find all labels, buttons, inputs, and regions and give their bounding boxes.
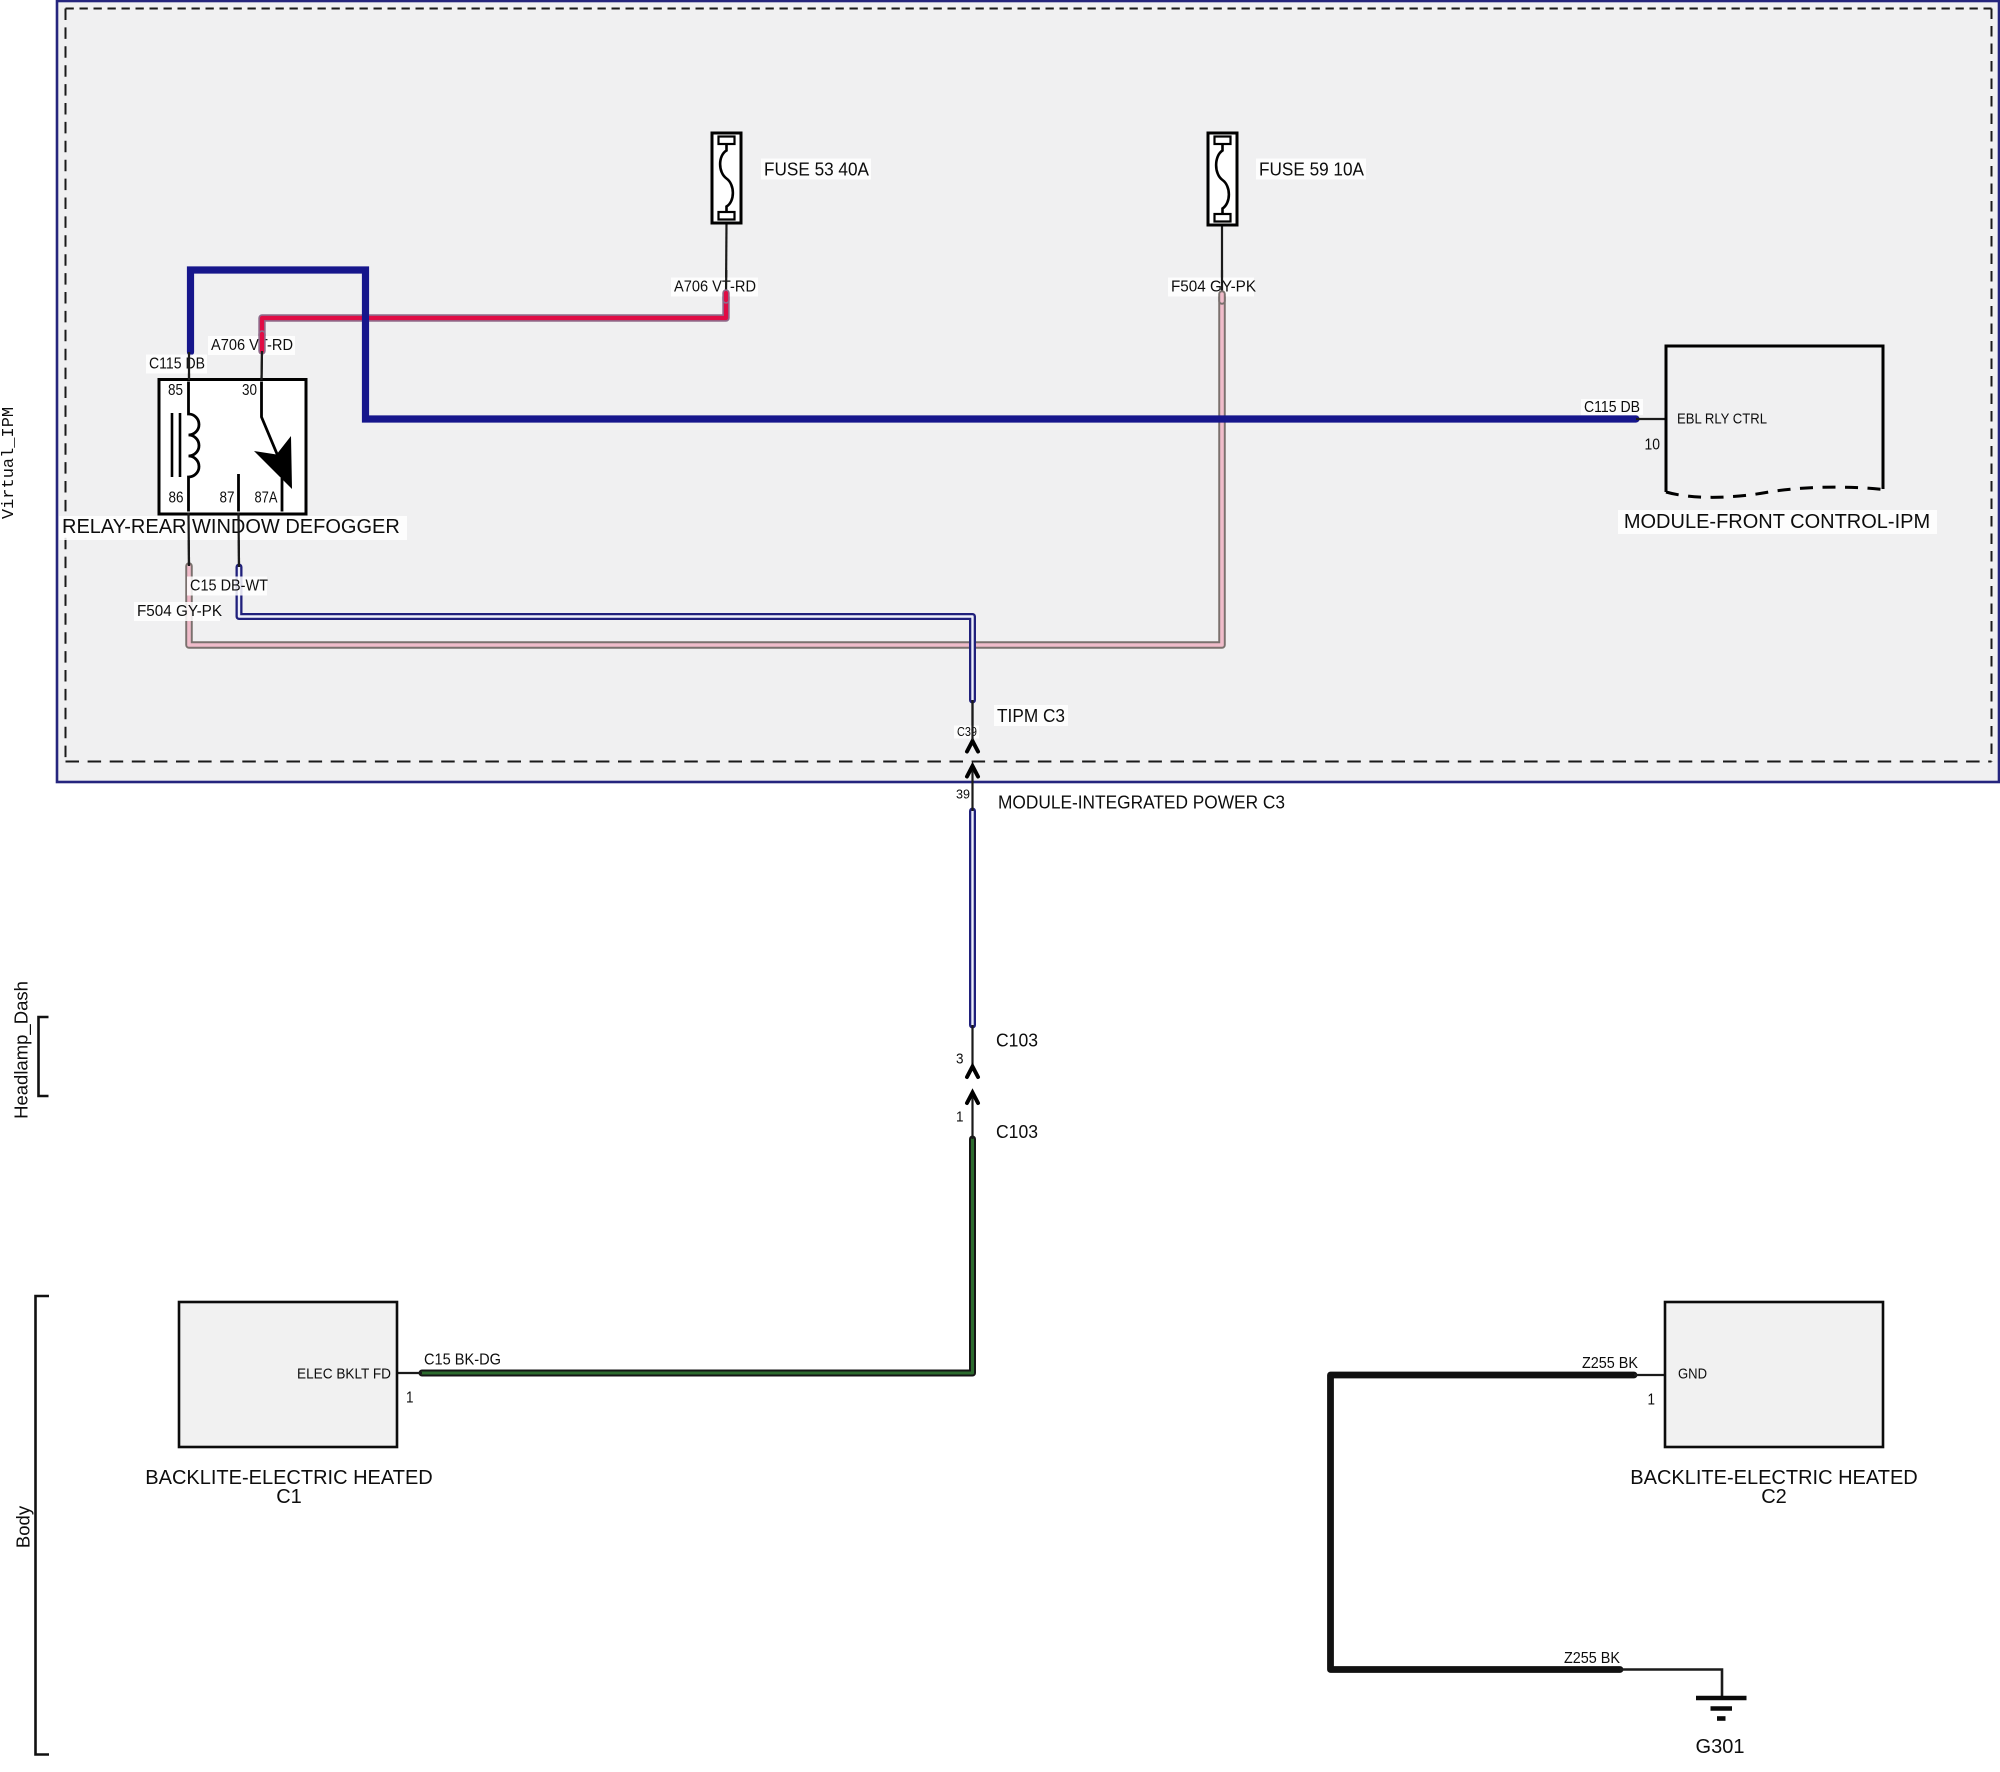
relay coil core lines <box>172 413 180 477</box>
pigtail overlay relay pin 85 <box>188 352 190 380</box>
svg-text:3: 3 <box>956 1051 964 1068</box>
Virtual_IPM region background box <box>57 1 1999 782</box>
label Virtual_IPM (rotated) <box>0 407 19 519</box>
svg-text:Virtual_IPM: Virtual_IPM <box>0 407 19 519</box>
label C15 BK-DG <box>424 1352 501 1369</box>
label Headlamp_Dash (rotated) <box>11 981 33 1119</box>
label FUSE 53 40A <box>761 159 871 180</box>
wire C15 DB-WT lower (connector 39 to C103) <box>969 811 976 1025</box>
svg-text:FUSE 59 10A: FUSE 59 10A <box>1259 159 1365 180</box>
label Z255 BK upper <box>1582 1355 1639 1372</box>
label A706 VT-RD upper <box>671 278 758 297</box>
label C15 DB-WT <box>187 577 268 596</box>
relay-rear window defogger box <box>159 380 306 515</box>
label MODULE-INTEGRATED POWER C3 <box>998 792 1285 813</box>
label RELAY-REAR WINDOW DEFOGGER <box>59 516 407 540</box>
svg-text:30: 30 <box>242 382 257 399</box>
relay pin 87A internal stub <box>281 478 284 512</box>
ground symbol G301 <box>1696 1698 1747 1719</box>
label F504 GY-PK lower <box>134 602 223 621</box>
svg-text:F504 GY-PK: F504 GY-PK <box>1171 279 1257 296</box>
label pin 1 (backlite C2) <box>1648 1392 1656 1409</box>
fuse F59 10A <box>1208 133 1237 225</box>
svg-text:ELEC BKLT FD: ELEC BKLT FD <box>297 1366 391 1383</box>
svg-text:Z255 BK: Z255 BK <box>1564 1650 1621 1667</box>
svg-text:F504 GY-PK: F504 GY-PK <box>137 603 223 620</box>
pigtail overlay fuse53 <box>725 270 727 293</box>
label BACKLITE-ELECTRIC HEATED (C1) <box>145 1467 432 1489</box>
label MODULE-FRONT CONTROL-IPM <box>1618 510 1937 534</box>
label pin C39 <box>954 725 979 739</box>
backlite-electric heated C2 box <box>1665 1302 1883 1447</box>
label C1 <box>276 1486 302 1508</box>
label relay pin 87A <box>255 490 279 507</box>
label C103 lower <box>996 1121 1038 1142</box>
label FUSE 59 10A <box>1256 159 1366 180</box>
label BACKLITE-ELECTRIC HEATED (C2) <box>1630 1467 1917 1489</box>
svg-text:GND: GND <box>1678 1366 1707 1383</box>
wire cap overlay A706 VT-RD below fuse53 <box>722 293 729 300</box>
pigtail fuse53 to wire <box>725 223 728 293</box>
svg-text:MODULE-INTEGRATED POWER C3: MODULE-INTEGRATED POWER C3 <box>998 792 1285 813</box>
wire F504 GY-PK (fuse59 to relay pin 86) <box>189 294 1222 645</box>
label relay pin 85 <box>168 382 183 399</box>
svg-text:1: 1 <box>956 1109 964 1126</box>
pigtail C103 pin 1 <box>971 1094 973 1140</box>
wire cap overlay A706 VT-RD at relay pin 30 <box>258 334 265 351</box>
relay switch blade (pin 30) <box>262 382 279 458</box>
svg-text:A706 VT-RD: A706 VT-RD <box>674 279 756 296</box>
svg-text:87: 87 <box>220 490 235 507</box>
label ELEC BKLT FD <box>297 1366 391 1383</box>
pigtail overlay relay pin 86 <box>187 513 190 566</box>
connector chevron C103 pin 1 <box>967 1093 978 1104</box>
connector chevron C103 pin 3 <box>967 1067 978 1078</box>
pigtail overlay fuse59 <box>1221 270 1223 294</box>
svg-text:FUSE 53 40A: FUSE 53 40A <box>764 159 870 180</box>
pigtail wire to ground G301 <box>1620 1670 1722 1697</box>
label pin 39 <box>956 788 970 802</box>
svg-text:Headlamp_Dash: Headlamp_Dash <box>11 981 33 1119</box>
svg-text:G301: G301 <box>1696 1736 1745 1758</box>
pigtail fuse59 to wire <box>1221 225 1223 294</box>
connector chevron C39 (TIPM C3) <box>967 741 978 752</box>
label relay pin 87 <box>220 490 235 507</box>
pigtail overlay TIPM C39 <box>971 700 973 740</box>
pigtail relay pin 85 <box>188 352 190 380</box>
relay pin 87 internal stub <box>237 474 240 512</box>
svg-text:Z255 BK: Z255 BK <box>1582 1355 1639 1372</box>
label relay pin 86 <box>169 490 184 507</box>
svg-text:39: 39 <box>956 788 970 802</box>
label pin 10 <box>1645 437 1661 454</box>
wire C115 DB (relay pin 85 to module pin 10) <box>191 270 1637 419</box>
label pin 1 (C103) <box>956 1109 964 1126</box>
svg-text:1: 1 <box>406 1390 414 1407</box>
pigtail relay pin 30 <box>260 351 263 380</box>
pigtail backlite C1 pin 1 <box>397 1372 422 1374</box>
svg-text:C115 DB: C115 DB <box>1584 399 1640 416</box>
label GND <box>1678 1366 1707 1383</box>
pigtail relay pin 87 <box>237 513 240 567</box>
Virtual_IPM inner dashed border <box>66 9 1992 762</box>
relay coil (pin 85 to 86) <box>189 382 200 512</box>
svg-text:C103: C103 <box>996 1030 1038 1051</box>
label pin 1 (backlite C1) <box>406 1390 414 1407</box>
pigtail module-integrated power pin 39 <box>971 768 973 812</box>
pigtail overlay relay pin 30 <box>260 351 263 380</box>
module-front control-IPM box <box>1666 346 1883 497</box>
label C2 <box>1761 1486 1787 1508</box>
wire A706 VT-RD (fuse53 to relay pin 30) <box>262 293 726 351</box>
label TIPM C3 <box>994 705 1068 726</box>
svg-text:EBL RLY CTRL: EBL RLY CTRL <box>1677 411 1767 428</box>
backlite-electric heated C1 box <box>179 1302 397 1447</box>
svg-text:TIPM C3: TIPM C3 <box>997 705 1065 726</box>
label G301 <box>1696 1736 1745 1758</box>
pigtail module pin 10 <box>1636 418 1666 420</box>
wire Z255 BK (backlite C2 to ground G301) <box>1331 1375 1635 1670</box>
svg-text:86: 86 <box>169 490 184 507</box>
label relay pin 30 <box>242 382 257 399</box>
svg-text:C115 DB: C115 DB <box>149 356 205 373</box>
bracket Body <box>36 1296 50 1755</box>
label C115 DB right <box>1581 399 1643 416</box>
label C103 upper <box>996 1030 1038 1051</box>
pigtail TIPM C3 pin C39 <box>971 700 973 740</box>
svg-text:10: 10 <box>1645 437 1661 454</box>
pigtail relay pin 86 <box>187 513 190 566</box>
svg-text:87A: 87A <box>255 490 279 507</box>
svg-text:C2: C2 <box>1761 1486 1787 1508</box>
svg-text:A706 VT-RD: A706 VT-RD <box>211 337 293 354</box>
fuse F53 40A <box>712 133 741 223</box>
pigtail C103 pin 3 <box>971 1025 973 1066</box>
svg-text:C39: C39 <box>957 725 977 739</box>
svg-text:RELAY-REAR WINDOW DEFOGGER: RELAY-REAR WINDOW DEFOGGER <box>62 516 400 538</box>
label Body (rotated) <box>13 1505 34 1548</box>
svg-text:C15 BK-DG: C15 BK-DG <box>424 1352 501 1369</box>
label F504 GY-PK upper <box>1168 278 1257 297</box>
svg-text:MODULE-FRONT CONTROL-IPM: MODULE-FRONT CONTROL-IPM <box>1624 511 1930 533</box>
connector chevron 39 (module-integrated power C3) <box>967 766 978 777</box>
relay switch arrowhead <box>254 436 292 489</box>
pigtail overlay relay pin 87 <box>237 513 240 567</box>
label A706 VT-RD lower <box>208 336 295 355</box>
svg-text:1: 1 <box>1648 1392 1656 1409</box>
svg-text:Body: Body <box>13 1505 34 1548</box>
svg-text:C1: C1 <box>276 1486 302 1508</box>
svg-text:C15 DB-WT: C15 DB-WT <box>190 578 268 595</box>
pigtail backlite C2 pin 1 <box>1634 1374 1665 1376</box>
wire C15 DB-WT upper (relay pin 87 to TIPM C3) <box>239 567 973 700</box>
bracket Headlamp_Dash <box>39 1017 49 1096</box>
svg-text:C103: C103 <box>996 1121 1038 1142</box>
wire C15 BK-DG (C103 to backlite C1) <box>422 1139 973 1373</box>
label EBL RLY CTRL <box>1677 411 1767 428</box>
label pin 3 <box>956 1051 964 1068</box>
label C115 DB left <box>146 355 207 374</box>
svg-text:85: 85 <box>168 382 183 399</box>
wire cap overlay F504 GY-PK below fuse59 <box>1218 294 1226 301</box>
label Z255 BK lower <box>1564 1650 1621 1667</box>
